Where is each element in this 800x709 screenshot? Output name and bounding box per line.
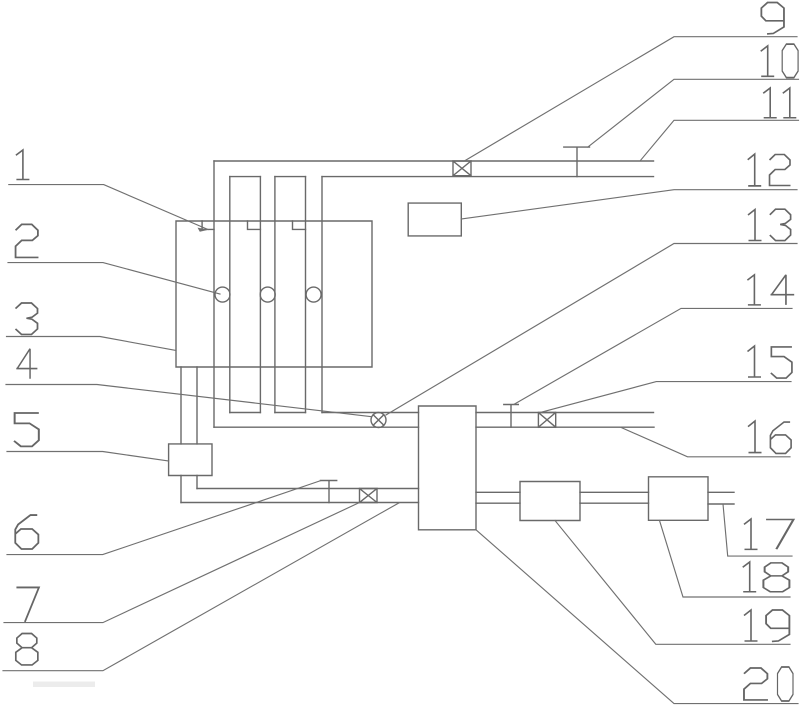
nozzle circle 1 (component 2) [215,287,230,302]
label 20 leader [476,530,798,704]
riser wall x=260.4 [259,177,261,413]
label 12 text [748,154,762,186]
label 3 text [16,303,38,334]
middle pipe bottom line (right of central box) [476,426,654,428]
label 18 text [743,562,757,592]
label 7 leader [4,503,360,623]
box component 5 [169,444,212,476]
pipe between box 19 and box 18 [580,492,649,503]
label 1 arrowhead [198,228,209,232]
label 13 leader [386,244,797,416]
left downcomer inner wall [196,367,198,489]
label 2 leader [8,263,220,294]
label 16 text [748,421,762,453]
label 17 text [744,519,758,549]
middle pipe top line (right of central box) [476,412,654,414]
valve V15 (gate valve on middle pipe) [538,413,555,428]
riser wall x=229.8 [229,177,231,413]
label 14 leader [514,308,792,404]
label 15 leader [540,382,791,413]
label 19 text [744,610,758,641]
hook fitting 2 [248,221,261,229]
label 1 text [16,150,30,179]
label 12 leader [461,190,797,219]
riser wall x=274.9 [274,177,276,413]
label 9 text [761,3,784,34]
label 6 text [15,515,38,549]
middle pipe top line (left of central box) [322,412,419,414]
top pipe upper line [214,160,654,162]
middle pipe bottom line (left of central box) [214,426,419,428]
tube A closed bottom [230,412,261,414]
valve V13 (crossed-circle valve) [371,413,386,428]
riser wall x=322 [321,177,323,413]
label 17 leader [723,504,792,556]
label 2 text [16,224,39,257]
label 18 leader [660,521,791,598]
sensor S10 (tap on top pipe) [564,147,590,177]
label 5 text [14,413,39,446]
nozzle circle 2 [260,287,275,302]
label 11 leader [640,120,799,161]
valve V7 (gate valve on lower pipe) [360,489,378,503]
lower pipe right: central box to box 19 [476,492,520,503]
nozzle circle 3 [306,287,321,302]
box component 18 [649,477,709,521]
label 7 text [16,587,39,622]
label 10 text [761,46,775,76]
box component 12 [408,203,461,236]
riser wall x=305.5 [305,177,307,413]
label 20 text [744,668,768,700]
label 10 leader [588,79,799,147]
label 4 text [16,349,37,379]
top pipe lower line segments [230,176,654,178]
label 19 leader [555,521,790,645]
label 8 leader [3,503,399,671]
central box (component 20) [419,406,477,530]
label 4 leader [6,385,371,417]
tank (component 3) [176,221,372,367]
left downcomer outer wall [180,367,182,503]
outlet stub after box 18 [708,492,734,504]
valve V9 (gate valve on top pipe) [453,161,471,176]
label 9 leader [464,37,797,162]
faint scan smudge [33,682,95,688]
label 15 text [748,346,762,377]
lower pipe top line [197,488,419,490]
lower pipe bottom line [181,502,419,504]
label 16 leader [621,427,790,457]
riser tube left wall [213,161,215,427]
label 11 text [763,88,777,118]
label 6 leader [7,481,321,555]
label 14 text [747,275,761,305]
tube B closed bottom [275,412,306,414]
sensor S14 (tap on middle pipe) [504,405,519,428]
label 13 text [748,210,762,241]
hook fitting 1 [202,221,214,229]
label 1 leader [9,185,208,230]
label 3 leader [7,337,177,351]
box component 19 [520,482,580,521]
label 8 text [16,634,38,665]
label 5 leader [7,452,169,462]
hook fitting 3 [293,221,306,229]
sensor S6 (tap on lower pipe) [321,481,337,503]
